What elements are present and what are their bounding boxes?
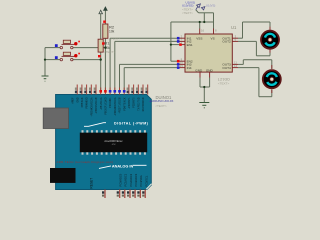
svg-text:<TEXT>: <TEXT> bbox=[109, 36, 121, 40]
svg-text:IN4: IN4 bbox=[187, 66, 192, 70]
svg-text:16: 16 bbox=[201, 29, 205, 33]
svg-text:~PB3/MOSI/OC2A: ~PB3/MOSI/OC2A bbox=[90, 97, 93, 117]
svg-text:OUT4: OUT4 bbox=[222, 66, 231, 70]
svg-text:AREF: AREF bbox=[72, 97, 75, 104]
svg-text:OUT2: OUT2 bbox=[222, 40, 231, 44]
svg-text:◆ARDUINO-UNO-R3: ◆ARDUINO-UNO-R3 bbox=[149, 100, 173, 103]
svg-text:15: 15 bbox=[180, 64, 184, 68]
svg-text:PC0/ADC0: PC0/ADC0 bbox=[119, 173, 123, 186]
svg-text:~PD5/T1/OC0B: ~PD5/T1/OC0B bbox=[120, 97, 122, 113]
svg-text:VSS: VSS bbox=[196, 36, 202, 40]
svg-text:GND: GND bbox=[195, 68, 203, 72]
svg-text:14: 14 bbox=[234, 64, 238, 68]
svg-text:~PD6/AIN0/OC0A: ~PD6/AIN0/OC0A bbox=[114, 97, 117, 116]
svg-text:~PD3/INT1: ~PD3/INT1 bbox=[129, 97, 131, 109]
svg-text:~PB2/SS/OC1B: ~PB2/SS/OC1B bbox=[96, 97, 98, 114]
svg-text:U1(VS): U1(VS) bbox=[206, 4, 216, 8]
svg-text:ARD-TECH (tecnoapk.blogspot.co: ARD-TECH (tecnoapk.blogspot.com) bbox=[57, 160, 114, 164]
svg-text:GND: GND bbox=[206, 68, 214, 72]
svg-text:AmelODOVEnter: AmelODOVEnter bbox=[104, 140, 122, 143]
svg-text:U1: U1 bbox=[231, 25, 237, 30]
svg-text:RESET: RESET bbox=[90, 178, 94, 189]
svg-text:PC4/SDA: PC4/SDA bbox=[139, 175, 143, 186]
svg-text:TX PD1/TXD: TX PD1/TXD bbox=[138, 97, 140, 111]
svg-text:PC3/ADC3: PC3/ADC3 bbox=[134, 173, 138, 186]
svg-text:<TEXT>: <TEXT> bbox=[155, 104, 167, 108]
svg-text:PC1/ADC1: PC1/ADC1 bbox=[124, 173, 128, 186]
svg-text:~PB1/OC1A: ~PB1/OC1A bbox=[100, 97, 103, 110]
svg-text:PC5/SCL: PC5/SCL bbox=[144, 175, 148, 186]
svg-text:<TEXT>: <TEXT> bbox=[182, 11, 193, 15]
svg-text:PC2/ADC2: PC2/ADC2 bbox=[129, 173, 133, 186]
svg-text:ANALOG IN: ANALOG IN bbox=[112, 164, 134, 168]
svg-text:PB0/ICP1/CLKO: PB0/ICP1/CLKO bbox=[106, 97, 108, 114]
svg-text:GND: GND bbox=[77, 97, 79, 102]
svg-text:PD2/INT0: PD2/INT0 bbox=[134, 97, 136, 108]
svg-text:PB5/SCK: PB5/SCK bbox=[82, 97, 84, 107]
svg-text:EN1: EN1 bbox=[187, 43, 193, 47]
svg-text:DIGITAL (-PWM): DIGITAL (-PWM) bbox=[114, 122, 149, 126]
svg-text:-PU: -PU bbox=[112, 144, 116, 146]
svg-text:<TEXT>: <TEXT> bbox=[218, 81, 230, 85]
svg-text:<TEXT>: <TEXT> bbox=[104, 50, 116, 54]
svg-text:RX PD0/RXD: RX PD0/RXD bbox=[143, 97, 145, 111]
svg-text:PB4/MISO: PB4/MISO bbox=[87, 97, 89, 108]
svg-text:PD4/T0/XCK: PD4/T0/XCK bbox=[124, 97, 126, 111]
svg-text:PD7/AIN1: PD7/AIN1 bbox=[109, 97, 112, 108]
svg-text:VS: VS bbox=[211, 36, 215, 40]
svg-text:10k: 10k bbox=[109, 30, 115, 34]
